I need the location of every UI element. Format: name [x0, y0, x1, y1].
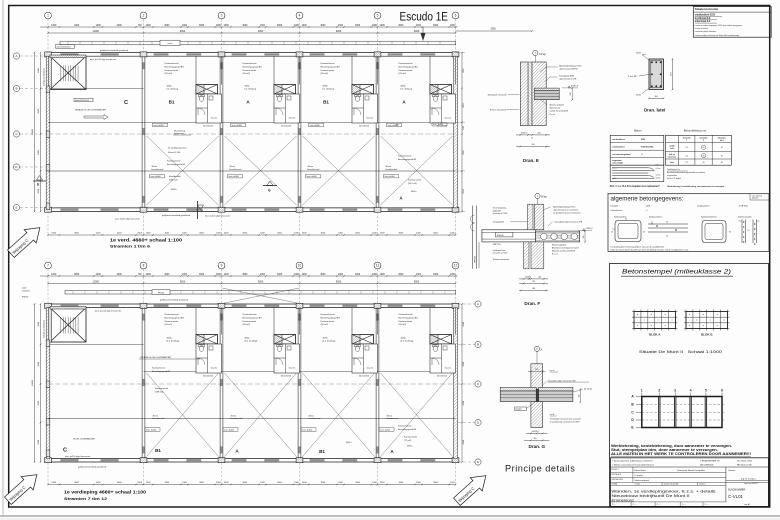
svg-text:kolommen: kolommen: [668, 156, 676, 158]
svg-text:3000: 3000: [433, 274, 439, 276]
svg-text:3000: 3000: [199, 25, 205, 27]
svg-text:B1: B1: [169, 99, 175, 104]
svg-text:3000: 3000: [320, 25, 326, 27]
svg-text:Bij onderkant/bovenkant opperv: Bij onderkant/bovenkant oppervlakken en …: [667, 171, 705, 174]
svg-text:staalkwaliteit: staalkwaliteit: [697, 205, 710, 208]
svg-text:Kantoorruimte: Kantoorruimte: [404, 436, 418, 439]
svg-text:Bezettingsgraad B3: Bezettingsgraad B3: [165, 316, 185, 319]
svg-text:antraciet ral 7035: antraciet ral 7035: [493, 212, 508, 215]
svg-text:Kantoorruimte: Kantoorruimte: [155, 387, 169, 390]
svg-text:IPE200: IPE200: [158, 292, 164, 294]
svg-text:6: 6: [721, 388, 723, 392]
svg-text:Bezettingsgraad B3: Bezettingsgraad B3: [243, 316, 263, 319]
svg-text:30min: 30min: [386, 166, 391, 168]
svg-text:PROJECT: PROJECT: [612, 469, 619, 471]
svg-text:UNP 200: UNP 200: [493, 244, 501, 246]
svg-text:Dran. G: Dran. G: [529, 444, 546, 449]
svg-text:UNP200: UNP200: [475, 256, 477, 263]
bottom plan interior column walls: [141, 308, 143, 459]
svg-text:OMSCHRIJVING: OMSCHRIJVING: [612, 479, 624, 481]
top plan section marker G: [263, 185, 277, 187]
svg-text:afstanden: afstanden: [683, 136, 691, 139]
svg-text:Maxima oplegvilt: Maxima oplegvilt: [552, 244, 567, 247]
svg-text:1300: 1300: [51, 25, 57, 27]
svg-text:(55 m2): (55 m2): [399, 324, 407, 326]
svg-text:kast, d=300: kast, d=300: [310, 124, 320, 127]
svg-text:100(20): 100(20): [525, 277, 532, 279]
svg-text:A'sp: A'sp: [541, 195, 547, 199]
svg-text:kast, d=300: kast, d=300: [302, 429, 312, 432]
svg-text:b.k. druklaag: b.k. druklaag: [245, 89, 256, 91]
svg-text:milieuklasse: milieuklasse: [611, 210, 624, 212]
svg-text:sterkteklasse: sterkteklasse: [612, 138, 626, 141]
svg-text:maatverkleint: maatverkleint: [667, 174, 678, 177]
svg-text:30min: 30min: [230, 166, 235, 168]
svg-text:240: 240: [578, 395, 580, 398]
svg-text:4660+: 4660+: [323, 86, 329, 88]
svg-text:1e verdieping 4660+ schaal 1:1: 1e verdieping 4660+ schaal 1:100: [64, 490, 147, 495]
svg-text:35: 35: [625, 219, 627, 221]
svg-text:TEL. 030-41 24 336: TEL. 030-41 24 336: [737, 461, 752, 463]
svg-text:35: 35: [721, 147, 723, 149]
svg-text:35: 35: [748, 230, 750, 232]
svg-text:120/20x5: 120/20x5: [22, 290, 30, 292]
svg-text:100/150: 100/150: [521, 133, 528, 135]
svg-text:4660+: 4660+: [411, 191, 417, 193]
detail E outer masonry leaf: [520, 62, 528, 126]
svg-text:BLOK A: BLOK A: [649, 332, 661, 336]
svg-text:Lassen av. indien aangegeven 1: Lassen av. indien aangegeven 100% havy, …: [695, 24, 742, 27]
svg-text:Bezettingsgraad B3: Bezettingsgraad B3: [321, 65, 341, 68]
svg-text:© Bouwkundig Teken- & Adviesbu: © Bouwkundig Teken- & Adviesbureau Turnb…: [612, 460, 653, 463]
svg-text:staalkwaliteit S235: staalkwaliteit S235: [695, 14, 716, 17]
svg-text:9000: 9000: [180, 280, 186, 283]
revision stamp Wijziging C (upper): [5, 221, 46, 260]
svg-text:4: 4: [299, 14, 301, 18]
svg-text:afge leverancier/BTW: afge leverancier/BTW: [559, 67, 577, 70]
detail E lower dimensions: [516, 134, 550, 136]
svg-text:Kanaalplaat afge leverancier V: Kanaalplaat afge leverancier VIB: [555, 220, 583, 223]
svg-text:35: 35: [611, 232, 613, 234]
svg-text:wijz. ae. 06-057: wijz. ae. 06-057: [744, 483, 757, 485]
svg-text:3000: 3000: [398, 25, 404, 27]
svg-text:3000: 3000: [398, 274, 404, 276]
svg-text:B1: B1: [155, 448, 161, 453]
svg-text:Bezettingsgraad B3: Bezettingsgraad B3: [152, 370, 171, 373]
svg-text:164: 164: [538, 277, 541, 279]
svg-text:A: A: [15, 54, 17, 58]
svg-text:A: A: [541, 348, 543, 352]
svg-text:A: A: [399, 196, 402, 201]
svg-text:brandwerend: brandwerend: [230, 169, 242, 171]
svg-text:(198 m2): (198 m2): [155, 391, 164, 393]
svg-text:4660+: 4660+: [346, 442, 352, 444]
svg-text:4660+: 4660+: [401, 86, 407, 88]
top plan section marker F: [197, 201, 199, 219]
svg-text:kast, d=300: kast, d=300: [154, 124, 164, 127]
svg-text:Emmeloord: Emmeloord: [634, 469, 646, 472]
lintel dimension 450: [672, 59, 674, 90]
svg-text:4660+: 4660+: [323, 338, 329, 340]
svg-text:Dran. F: Dran. F: [524, 301, 540, 306]
detail G column width dim 300: [528, 371, 546, 373]
svg-text:1000: 1000: [294, 274, 300, 276]
svg-text:1: 1: [47, 14, 49, 18]
svg-text:1: 1: [641, 388, 643, 392]
svg-text:1000: 1000: [450, 25, 456, 27]
svg-text:1000: 1000: [380, 25, 386, 27]
detail F upper wall leaves: [528, 204, 533, 230]
detail F edge beam band: [482, 230, 536, 242]
svg-text:4660+: 4660+: [167, 338, 173, 340]
svg-text:9000: 9000: [336, 30, 342, 33]
svg-text:4000: 4000: [74, 274, 80, 276]
svg-text:Lekdorpel kleur: Lekdorpel kleur: [493, 249, 506, 252]
bottom plan north facade wall: [48, 303, 457, 305]
svg-text:Douche: Douche: [289, 118, 296, 120]
svg-text:3000: 3000: [199, 274, 205, 276]
svg-text:(55 m2): (55 m2): [399, 73, 407, 75]
blok A grid: [633, 310, 635, 331]
top plan grid bubbles 1-6: [45, 12, 52, 19]
svg-text:ALLE MATEN IN HET WERK TE CONT: ALLE MATEN IN HET WERK TE CONTROLEREN DO…: [611, 452, 751, 456]
svg-text:brandwerend: brandwerend: [152, 169, 164, 171]
svg-text:E: E: [477, 460, 479, 464]
svg-text:Douche: Douche: [445, 118, 452, 120]
svg-text:4000: 4000: [117, 274, 123, 276]
svg-text:P- .....: P- .....: [633, 504, 638, 506]
svg-text:5 snp. Ø8: 5 snp. Ø8: [628, 76, 638, 78]
svg-text:0,7mv: 0,7mv: [656, 178, 661, 180]
svg-text:Kantoorruimte: Kantoorruimte: [321, 69, 336, 72]
svg-text:1000: 1000: [146, 274, 152, 276]
detail G right floor slab: [539, 387, 573, 391]
svg-text:ter goedkeuring constructeur e: ter goedkeuring constructeur en BWT.: [550, 420, 581, 423]
svg-text:4660+: 4660+: [245, 86, 251, 88]
svg-text:Kantoorfunctie: Kantoorfunctie: [399, 62, 414, 65]
svg-text:Gezien:: Gezien:: [728, 470, 736, 472]
svg-text:K.o.a.f: K.o.a.f: [552, 254, 558, 256]
svg-text:(55 m2): (55 m2): [243, 73, 251, 75]
top plan entry arrow: [421, 33, 426, 41]
svg-text:3000: 3000: [164, 274, 170, 276]
betonstempel outer box: [610, 264, 769, 507]
svg-text:B1: B1: [319, 449, 325, 454]
svg-text:bedrijfstrap 300x4(1/4): bedrijfstrap 300x4(1/4): [43, 68, 46, 86]
svg-text:Werktekening, bestektekening,: Werktekening, bestektekening, door aanne…: [667, 185, 725, 188]
svg-text:1000: 1000: [96, 25, 102, 27]
svg-text:algemene betongegevens:: algemene betongegevens:: [611, 195, 684, 202]
svg-text:Schaal 1:100: Schaal 1:100: [168, 152, 181, 154]
svg-text:kast, d=214 afge leverancier: kast, d=214 afge leverancier: [115, 218, 141, 221]
bottom plan dimension row module: [48, 283, 456, 285]
svg-text:F: F: [201, 209, 203, 213]
detail E 240 dimension: [571, 88, 573, 100]
svg-text:VLOEI. LEVERANCIER: VLOEI. LEVERANCIER: [73, 438, 95, 441]
title block project rows: [725, 467, 727, 502]
svg-text:roster: roster: [167, 42, 172, 45]
svg-text:(55 m2): (55 m2): [243, 324, 251, 326]
svg-text:afge leverancier en aannemer: afge leverancier en aannemer: [553, 208, 578, 211]
svg-text:4.590+P: 4.590+P: [586, 228, 594, 230]
svg-text:kast, d=214 afge leverancier: kast, d=214 afge leverancier: [205, 215, 231, 218]
svg-text:Betonstempel (milieuklasse 2): Betonstempel (milieuklasse 2): [622, 269, 731, 276]
svg-text:4660+: 4660+: [167, 86, 173, 88]
svg-text:P- .....: P- .....: [657, 504, 662, 506]
svg-text:35: 35: [666, 221, 668, 223]
svg-text:1000: 1000: [224, 25, 230, 27]
svg-text:consistentiegebied: consistentiegebied: [612, 153, 631, 156]
beton bending diagram: [610, 165, 664, 181]
svg-text:C: C: [63, 448, 67, 454]
lintel section Dran. latei: [649, 59, 664, 90]
svg-text:prf. de lijn: prf. de lijn: [584, 387, 592, 390]
svg-text:E: E: [631, 426, 633, 430]
top plan roster strip: [60, 41, 456, 45]
svg-text:Douche: Douche: [445, 368, 452, 370]
svg-text:1000: 1000: [416, 274, 422, 276]
detail E cavity insulation: [528, 62, 532, 126]
svg-text:2: 2: [703, 140, 704, 142]
svg-text:Bezettingsgraad B3: Bezettingsgraad B3: [398, 158, 417, 161]
svg-text:1: 1: [686, 140, 687, 142]
svg-text:4660+: 4660+: [401, 338, 407, 340]
svg-text:8: 8: [143, 264, 145, 268]
svg-text:3000: 3000: [320, 274, 326, 276]
top plan row guide lines: [48, 133, 456, 135]
svg-text:Kantoorfunctie: Kantoorfunctie: [321, 313, 336, 316]
svg-text:0,7mv: 0,7mv: [656, 174, 661, 176]
scanner edge line left: [2, 0, 4, 516]
top plan dimension row module: [48, 32, 456, 34]
top plan bottom dimension row: [48, 234, 456, 236]
svg-text:Schoon metselwerk: Schoon metselwerk: [493, 258, 510, 261]
bottom plan wind bracing crosses: [147, 373, 219, 457]
bottom plan sanitary cluster module 8: [195, 308, 197, 335]
svg-text:te HEJAERSERFAHT 176: te HEJAERSERFAHT 176: [700, 460, 720, 463]
svg-text:3000: 3000: [277, 274, 283, 276]
detail E marker bubble 12sp: [533, 50, 538, 55]
top plan sanitary cluster module 3: [273, 56, 275, 84]
svg-text:kast, d=300: kast, d=300: [232, 124, 242, 127]
svg-text:12: 12: [454, 264, 458, 268]
svg-text:hoofdstaal 8.8: hoofdstaal 8.8: [695, 17, 711, 20]
detail F hollow core slab: [536, 231, 580, 242]
svg-text:B: B: [477, 343, 479, 347]
svg-text:Kantoorfunctie: Kantoorfunctie: [321, 62, 336, 65]
svg-text:IPE200: IPE200: [497, 235, 504, 237]
svg-text:11000: 11000: [93, 280, 100, 283]
top plan row bubbles A-E: [13, 53, 19, 59]
svg-text:3000: 3000: [242, 274, 248, 276]
top plan kast labels under sanitary zone line: [153, 123, 168, 126]
svg-text:1000: 1000: [302, 274, 308, 276]
svg-text:Kantoorfunctie: Kantoorfunctie: [152, 367, 166, 370]
bottom plan stairwell with cross: [50, 308, 86, 342]
svg-text:35: 35: [729, 232, 731, 234]
detail F marker bubble Asp: [535, 193, 540, 198]
svg-text:Stramien 7 t/m 12: Stramien 7 t/m 12: [64, 496, 108, 501]
svg-text:BLOK B: BLOK B: [701, 332, 713, 336]
top plan north facade wall: [48, 52, 457, 54]
paper bottom edge shadow: [0, 515, 780, 517]
svg-text:300 1100 300: 300 1100 300: [203, 125, 213, 127]
svg-text:Douche: Douche: [211, 118, 218, 120]
beton properties table: [610, 135, 664, 165]
svg-text:IPE200: IPE200: [22, 297, 28, 299]
svg-text:Kantoorfunctie: Kantoorfunctie: [165, 313, 180, 316]
svg-text:Kantoorfunctie: Kantoorfunctie: [399, 313, 414, 316]
svg-text:Kantoorruimte: Kantoorruimte: [399, 320, 414, 323]
svg-text:(77 m2): (77 m2): [404, 440, 411, 442]
svg-text:3: 3: [674, 388, 676, 392]
svg-text:Douche: Douche: [367, 118, 374, 120]
svg-text:2: 2: [143, 14, 145, 18]
title block bottom revision row: [611, 501, 726, 503]
svg-text:Kanaalplaat A260: Kanaalplaat A260: [559, 75, 574, 78]
svg-text:brandwerend: brandwerend: [308, 169, 320, 171]
svg-text:Bezettingsgraad B3: Bezettingsgraad B3: [243, 65, 263, 68]
svg-text:Kantoorruimte: Kantoorruimte: [243, 69, 258, 72]
svg-text:4: 4: [690, 388, 692, 392]
svg-text:kast, d=300: kast, d=300: [385, 175, 395, 178]
svg-text:300: 300: [535, 369, 538, 371]
svg-text:A: A: [477, 302, 479, 306]
top plan module C annotations: [56, 45, 75, 49]
svg-text:18000: 18000: [32, 379, 34, 386]
svg-text:E: E: [15, 206, 17, 210]
svg-text:(198 m2): (198 m2): [169, 179, 178, 181]
svg-text:4660+: 4660+: [407, 446, 413, 448]
svg-text:isolatie Rc=2,5m2k/W: isolatie Rc=2,5m2k/W: [550, 110, 569, 113]
top plan dimension row fine: [40, 26, 458, 28]
staalconstructie table: [693, 7, 771, 38]
svg-text:25: 25: [686, 162, 688, 164]
svg-text:(55 m2): (55 m2): [165, 324, 173, 326]
svg-text:Datum 05-06-08: Datum 05-06-08: [664, 483, 679, 486]
svg-text:20: 20: [702, 147, 704, 149]
bottom plan left wall piers: [46, 340, 50, 347]
svg-text:kast, d=300: kast, d=300: [433, 123, 443, 126]
svg-text:staalkwaliteit: staalkwaliteit: [612, 145, 625, 148]
svg-text:4000: 4000: [117, 25, 123, 27]
svg-text:Kantoorfunctie: Kantoorfunctie: [167, 160, 181, 163]
svg-text:1e verd. 4660+ schaal 1:100: 1e verd. 4660+ schaal 1:100: [110, 238, 183, 243]
svg-text:Indien de stenen groter dan Ø2: Indien de stenen groter dan Ø25 zijn, di…: [611, 248, 690, 251]
svg-text:b.k. druklaag: b.k. druklaag: [323, 89, 334, 91]
svg-text:Kantoorruimte: Kantoorruimte: [399, 69, 414, 72]
svg-text:Gevel beplating,: Gevel beplating,: [493, 207, 507, 210]
svg-text:1000: 1000: [380, 274, 386, 276]
svg-text:b.k. druklaag: b.k. druklaag: [401, 89, 412, 91]
svg-text:0,7mv: 0,7mv: [656, 168, 661, 170]
svg-text:P- .....: P- .....: [705, 504, 710, 506]
svg-text:Kantoorfunctie: Kantoorfunctie: [243, 62, 258, 65]
top plan stairwell with cross: [50, 56, 86, 89]
svg-text:wijz. A1: wijz. A1: [744, 503, 750, 506]
bottom plan roster strip: [65, 291, 456, 294]
svg-text:scheurwijdte: scheurwijdte: [612, 161, 623, 164]
svg-text:6: 6: [455, 14, 457, 18]
top plan left wall piers: [46, 86, 50, 93]
blok B grid: [685, 310, 687, 331]
top plan wind bracing crosses: [147, 136, 219, 205]
svg-text:bauplst: bauplst: [516, 408, 523, 411]
detail E inner leaf: [532, 62, 546, 126]
bottom plan grid extension lines: [47, 269, 49, 304]
detail G lower column: [531, 402, 543, 428]
svg-text:1000: 1000: [224, 274, 230, 276]
svg-text:150(150): 150(150): [531, 431, 539, 433]
svg-text:(55 m2): (55 m2): [165, 73, 173, 75]
svg-text:(55 m2): (55 m2): [321, 324, 329, 326]
svg-text:B1: B1: [323, 99, 329, 104]
svg-text:Staalconstructie: Staalconstructie: [695, 7, 719, 11]
svg-text:5: 5: [377, 14, 379, 18]
top plan interior column walls: [141, 56, 143, 208]
detail G left floor slab: [500, 387, 536, 391]
svg-text:kast, d=300: kast, d=300: [224, 429, 234, 432]
svg-text:30min: 30min: [152, 166, 157, 168]
detail G 240 dimension: [579, 389, 581, 402]
top plan right dimension column: [461, 53, 463, 212]
top plan sanitary cluster module 2: [195, 56, 197, 84]
svg-text:20: 20: [702, 155, 704, 157]
svg-text:P- .....: P- .....: [612, 504, 617, 506]
svg-text:b.k. druklaag: b.k. druklaag: [167, 89, 178, 91]
detail G joint infill: [536, 389, 538, 402]
svg-text:Peil = t.o.v. N.A.P.-te bepale: Peil = t.o.v. N.A.P.-te bepalen door aan…: [610, 185, 660, 188]
svg-text:vloer: vloer: [670, 162, 674, 164]
top plan grid stubs below: [47, 212, 49, 235]
svg-text:afstanden: afstanden: [700, 136, 708, 139]
svg-text:afge leverancier VIB: afge leverancier VIB: [559, 77, 577, 80]
svg-text:7: 7: [47, 264, 49, 268]
svg-text:Metselwerk, hf.0-1200: Metselwerk, hf.0-1200: [488, 93, 507, 96]
svg-text:balk: balk: [670, 148, 673, 150]
svg-text:0,7mv: 0,7mv: [656, 165, 661, 167]
bottom plan dimension row fine: [40, 275, 458, 277]
top plan sanitary cluster module 5: [429, 56, 431, 84]
svg-text:kast, d=214 afge leverancier: kast, d=214 afge leverancier: [95, 310, 121, 313]
svg-text:214: 214: [532, 281, 535, 283]
svg-text:© Website: www.turnbul.net E: © Website: www.turnbul.net E-mail: info@…: [612, 463, 654, 466]
svg-text:1300: 1300: [51, 274, 57, 276]
bottom plan sanitary cluster module 9: [273, 308, 275, 335]
svg-text:dit.l*m = 25 dekpel: dit.l*m = 25 dekpel: [667, 177, 682, 180]
svg-text:kast, d=300: kast, d=300: [151, 175, 161, 178]
svg-text:b.k.5: b.k.5: [720, 140, 724, 142]
svg-text:Stramien 1 t/m 6: Stramien 1 t/m 6: [110, 244, 151, 249]
svg-text:3300: 3300: [490, 29, 496, 31]
svg-text:ter goedkeuring van constructe: ter goedkeuring van constructeur: [553, 211, 581, 214]
svg-text:30min: 30min: [308, 166, 313, 168]
svg-text:300 1100 300: 300 1100 300: [203, 375, 213, 377]
svg-text:DAV 24 AW03546: DAV 24 AW03546: [700, 463, 713, 466]
top plan grid extension lines: [47, 19, 49, 52]
svg-text:1000: 1000: [416, 25, 422, 27]
svg-text:golfplaat buitenblad geisoleer: golfplaat buitenblad geisoleerd: [100, 49, 129, 52]
svg-text:Bezettingsgraad B3: Bezettingsgraad B3: [399, 65, 419, 68]
svg-text:FeB 500 HKL: FeB 500 HKL: [641, 146, 654, 148]
svg-text:koker: koker: [22, 287, 27, 290]
svg-text:Principe details: Principe details: [505, 464, 575, 474]
svg-text:50: 50: [531, 138, 533, 140]
svg-text:Toelichting = Dy: Toelichting = Dy: [667, 168, 680, 171]
bottom plan south facade wall: [48, 457, 457, 459]
svg-text:kast, d=300: kast, d=300: [146, 429, 156, 432]
svg-text:Kantoorruimte: Kantoorruimte: [165, 320, 180, 323]
